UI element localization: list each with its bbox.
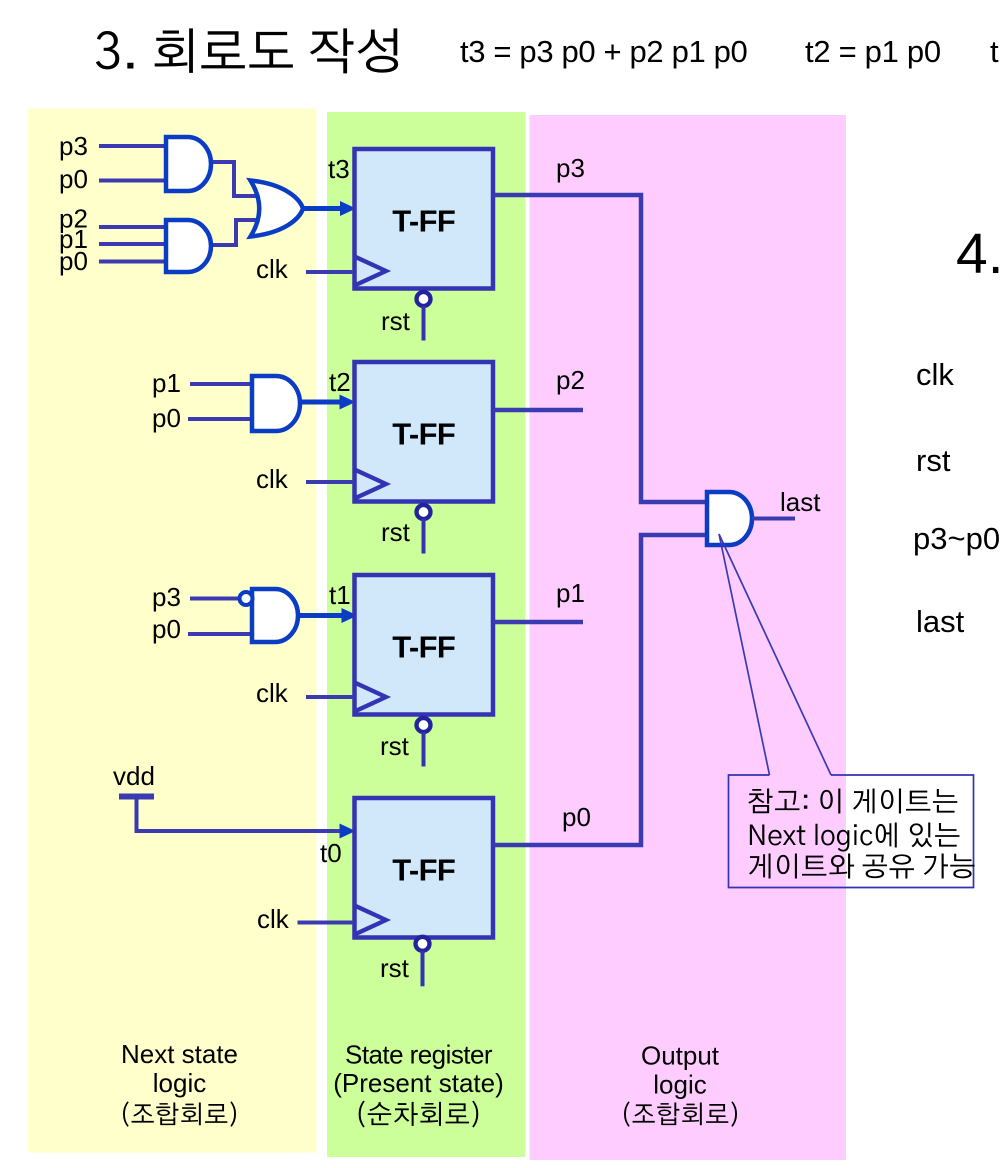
wire p1 output stub (493, 620, 583, 625)
svg-text:rst: rst (380, 731, 410, 761)
svg-text:clk: clk (257, 904, 290, 934)
next-state-logic band (yellow) (28, 109, 317, 1153)
wire p0 to AND1 (99, 179, 170, 183)
svg-text:rst: rst (916, 443, 951, 478)
svg-text:rst: rst (381, 306, 411, 336)
svg-text:T-FF: T-FF (392, 416, 455, 451)
svg-text:p0: p0 (562, 802, 591, 832)
T flip-flop U1 (355, 149, 494, 289)
svg-text:p0: p0 (152, 614, 181, 644)
rst row1 bubble and stub (417, 292, 431, 341)
arrowhead t2 input (340, 395, 356, 410)
rst row2 bubble and stub (417, 505, 431, 554)
OR gate O1 (251, 181, 304, 237)
rst row4 bubble and stub (416, 937, 430, 987)
T flip-flop U2 (355, 362, 494, 502)
note line1 참고: 이 게이트는 (748, 789, 957, 814)
svg-text:T-FF: T-FF (392, 629, 455, 664)
svg-text:Next state: Next state (121, 1039, 238, 1069)
svg-text:p3: p3 (152, 582, 181, 612)
wire clk row3 (306, 695, 354, 699)
wire p3 to bubble (190, 597, 239, 601)
svg-text:logic: logic (153, 1068, 206, 1098)
svg-text:vdd: vdd (113, 761, 155, 791)
svg-text:p2: p2 (556, 365, 585, 395)
svg-text:last: last (916, 604, 965, 639)
note line2 Next logic에 있는 (750, 823, 960, 852)
svg-text:p0: p0 (59, 246, 88, 276)
svg-text:rst: rst (381, 517, 411, 547)
wire AND1 out to OR top (210, 162, 258, 196)
caption (조합회로) yellow (123, 1101, 236, 1126)
svg-text:clk: clk (256, 464, 289, 494)
wire p0 to AND3 (188, 417, 256, 421)
svg-text:t0: t0 (320, 838, 342, 868)
wire p2 to AND2 (99, 225, 170, 229)
svg-text:clk: clk (256, 678, 289, 708)
svg-text:last: last (780, 487, 821, 517)
wire clk row4 (298, 921, 355, 925)
wire AND2 out to OR bottom (210, 220, 258, 245)
wire p0 to AND4 (188, 632, 256, 636)
wire p1 to AND2 (99, 242, 170, 246)
svg-text:(Present state): (Present state) (333, 1068, 504, 1098)
svg-text:clk: clk (916, 357, 954, 392)
callout line left (719, 534, 770, 775)
svg-text:t1: t1 (329, 580, 351, 610)
svg-text:p1: p1 (152, 368, 181, 398)
arrowhead t0 input (340, 824, 356, 839)
svg-text:Output: Output (641, 1041, 720, 1071)
svg-text:T-FF: T-FF (392, 203, 455, 238)
svg-text:4.: 4. (956, 222, 1000, 286)
wire vdd to T-FF4 t0 input (137, 797, 342, 832)
svg-text:logic: logic (653, 1070, 706, 1100)
AND gate A3 (p1·p0) (252, 376, 300, 431)
wire p1 to AND3 (190, 382, 256, 386)
wire p0 to AND2 (99, 260, 170, 264)
state-register band (green) (327, 112, 526, 1157)
wire p2 output stub (493, 408, 583, 413)
wire p3 output to AND5 top input (493, 195, 709, 502)
svg-text:p0: p0 (152, 403, 181, 433)
svg-text:rst: rst (380, 953, 410, 983)
wire OR out to T-FF1 (303, 206, 343, 211)
arrowhead t3 input (340, 201, 356, 216)
note box (open at callout) (729, 775, 974, 888)
AND gate A5 (shared last gate) (707, 492, 752, 545)
svg-text:t2: t2 (329, 367, 351, 397)
callout line right (719, 534, 831, 775)
inverter bubble on AND4 p3 input (240, 592, 253, 605)
output-logic band (pink) (530, 115, 847, 1160)
svg-text:t3 = p3 p0 + p2 p1 p0: t3 = p3 p0 + p2 p1 p0 (460, 34, 748, 69)
caption (순차회로) (359, 1101, 479, 1128)
caption (조합회로) pink (624, 1101, 737, 1126)
wire clk row2 (306, 480, 354, 484)
vdd power bar (119, 794, 154, 800)
wire p0 output to AND5 bottom input (493, 535, 709, 845)
svg-text:t2 = p1 p0: t2 = p1 p0 (805, 34, 941, 69)
svg-text:T-FF: T-FF (392, 852, 455, 887)
svg-text:State register: State register (345, 1040, 493, 1070)
svg-text:clk: clk (256, 254, 289, 284)
arrowhead t1 input (342, 608, 358, 623)
svg-text:p0: p0 (59, 164, 88, 194)
wire AND3 out to T-FF2 (300, 400, 341, 405)
AND gate A1 (p3·p0) (166, 137, 211, 191)
svg-text:p3~p0: p3~p0 (913, 521, 1000, 556)
AND gate A4 (p3inv·p0) (252, 589, 298, 642)
wire clk row1 (306, 270, 354, 274)
svg-text:p1: p1 (556, 578, 585, 608)
title: 3. 회로도 작성 (96, 28, 398, 73)
wire p3 to AND1 (99, 144, 170, 148)
wire AND4 out to T-FF3 (298, 613, 343, 618)
AND gate A2 (p2·p1·p0) (166, 220, 211, 272)
svg-text:p3: p3 (556, 153, 585, 183)
rst row3 bubble and stub (417, 718, 431, 767)
svg-text:t1 =: t1 = (990, 34, 1000, 69)
T flip-flop U4 (355, 798, 494, 938)
svg-text:p3: p3 (59, 131, 88, 161)
wire last output (752, 517, 795, 521)
svg-text:t3: t3 (328, 154, 350, 184)
T flip-flop U3 (355, 575, 494, 715)
note line3 게이트와 공유 가능 (749, 854, 975, 879)
